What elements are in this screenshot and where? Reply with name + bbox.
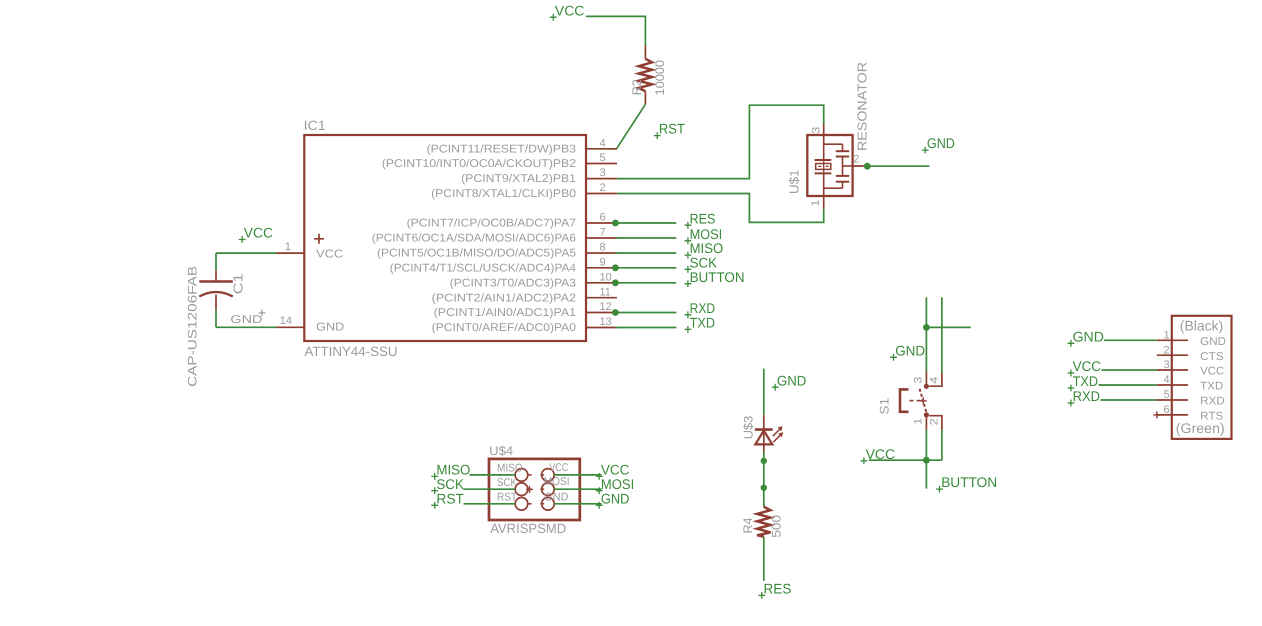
ftdi pin 2 CTS <box>1157 344 1224 362</box>
svg-text:ATTINY44-SSU: ATTINY44-SSU <box>305 344 398 359</box>
svg-text:(PCINT8/XTAL1/CLKI)PB0: (PCINT8/XTAL1/CLKI)PB0 <box>431 188 576 200</box>
ftdi pin 6 RTS <box>1157 404 1224 422</box>
svg-text:SCK: SCK <box>436 476 464 492</box>
junction at VCC of switch <box>923 457 930 464</box>
svg-text:1: 1 <box>810 200 822 207</box>
junction dot 2 on LED wire <box>761 485 767 491</box>
svg-text:(PCINT3/T0/ADC3)PA3: (PCINT3/T0/ADC3)PA3 <box>450 277 576 289</box>
switch S1 <box>900 372 942 430</box>
svg-text:5: 5 <box>1163 389 1169 401</box>
svg-text:RST: RST <box>497 492 517 504</box>
resonator pin 3 stub <box>811 124 824 136</box>
svg-text:MOSI: MOSI <box>601 476 634 492</box>
wire pin 12 to label <box>615 312 676 314</box>
pin 14 stub <box>275 315 304 327</box>
ftdi pin 3 VCC <box>1157 359 1224 377</box>
svg-text:10000: 10000 <box>653 60 667 96</box>
svg-text:GND: GND <box>1073 328 1104 344</box>
net label VCC (switch) <box>861 446 896 464</box>
resonator pin 2 stub <box>853 154 869 166</box>
junction on pin 10 wire <box>612 279 619 286</box>
svg-text:GND: GND <box>601 490 630 506</box>
wire switch pin 2 down <box>941 430 943 461</box>
svg-text:4: 4 <box>928 377 940 384</box>
net label BUTTON <box>936 474 997 492</box>
isp pad left MISO <box>515 469 531 482</box>
svg-text:RES: RES <box>690 210 716 226</box>
svg-text:BUTTON: BUTTON <box>690 269 745 285</box>
svg-text:AVRISPSMD: AVRISPSMD <box>490 521 566 536</box>
svg-text:U$3: U$3 <box>741 416 755 440</box>
svg-text:GND: GND <box>777 372 807 388</box>
wire pin 9 to label <box>615 267 676 269</box>
ic pin 6 PA7 <box>407 212 617 230</box>
svg-text:2: 2 <box>929 418 941 425</box>
svg-text:3: 3 <box>1163 359 1169 371</box>
svg-text:11: 11 <box>600 286 611 298</box>
net label VCC (isp right) <box>596 462 630 480</box>
svg-text:VCC: VCC <box>1073 358 1101 374</box>
svg-text:(PCINT5/OC1B/MISO/DO/ADC5)PA5: (PCINT5/OC1B/MISO/DO/ADC5)PA5 <box>377 248 576 260</box>
net label MOSI <box>685 226 723 244</box>
svg-text:9: 9 <box>600 256 606 268</box>
svg-text:(PCINT1/AIN0/ADC1)PA1: (PCINT1/AIN0/ADC1)PA1 <box>434 307 576 319</box>
wire isp MISO left <box>470 474 516 476</box>
net label GND (resonator) <box>922 135 955 153</box>
svg-text:3: 3 <box>913 377 925 384</box>
svg-text:1: 1 <box>913 418 925 425</box>
isp pad right VCC <box>540 469 554 482</box>
wire to BUTTON label <box>925 460 927 488</box>
svg-text:13: 13 <box>600 316 612 328</box>
svg-text:U$1: U$1 <box>786 170 801 195</box>
isp pad right MOSI <box>540 483 554 496</box>
junction dot 1 on LED wire <box>761 458 767 464</box>
svg-text:5: 5 <box>600 152 606 164</box>
junction at resonator pin 2 <box>864 163 871 170</box>
net label TXD (ftdi) <box>1068 373 1099 391</box>
wire IC pin 3 PB1 to resonator pin 3 <box>617 105 824 178</box>
svg-text:GND: GND <box>316 322 344 334</box>
wire pin 7 to label <box>615 237 676 239</box>
isp origin cross <box>526 486 533 493</box>
svg-text:TXD: TXD <box>1200 381 1223 393</box>
ftdi pin 1 GND <box>1157 330 1226 348</box>
svg-text:GND: GND <box>544 491 568 503</box>
isp pad left SCK <box>515 483 531 496</box>
svg-text:VCC: VCC <box>316 248 343 260</box>
wire ftdi VCC <box>1102 369 1157 371</box>
svg-text:3: 3 <box>811 127 823 134</box>
net label MOSI (isp right) <box>596 476 634 494</box>
svg-text:U$4: U$4 <box>489 444 513 458</box>
resonator pin 1 stub <box>810 196 824 209</box>
wire R4 to RES <box>763 537 765 581</box>
ic pin 5 PB2 <box>382 152 617 170</box>
svg-text:500: 500 <box>769 515 783 538</box>
ic pin 3 PB1 <box>461 167 617 185</box>
svg-text:(PCINT6/OC1A/SDA/MOSI/ADC6)PA6: (PCINT6/OC1A/SDA/MOSI/ADC6)PA6 <box>372 233 576 245</box>
svg-text:RESONATOR: RESONATOR <box>855 62 870 151</box>
wire ftdi TXD <box>1099 384 1157 386</box>
svg-text:VCC: VCC <box>866 446 896 462</box>
wire switch pin 4 up <box>941 297 943 373</box>
ic pin 7 PA6 <box>372 227 617 245</box>
svg-text:(PCINT10/INT0/OC0A/CKOUT)PB2: (PCINT10/INT0/OC0A/CKOUT)PB2 <box>382 158 576 170</box>
svg-text:4: 4 <box>1163 374 1169 386</box>
svg-text:CAP-US1206FAB: CAP-US1206FAB <box>186 266 200 387</box>
resistor R2 <box>639 46 652 104</box>
ic pin 10 PA3 <box>450 271 617 289</box>
isp pad right GND <box>540 498 554 511</box>
svg-text:TXD: TXD <box>690 315 716 331</box>
svg-text:VCC: VCC <box>1200 366 1224 378</box>
svg-text:RST: RST <box>659 121 685 137</box>
net label GND (switch) <box>890 342 925 360</box>
svg-text:(PCINT9/XTAL2)PB1: (PCINT9/XTAL2)PB1 <box>461 173 576 185</box>
net label GND (isp right) <box>596 490 630 508</box>
ic pin 13 PA0 <box>432 316 617 334</box>
svg-text:6: 6 <box>600 212 606 224</box>
svg-text:1: 1 <box>1163 330 1169 342</box>
wire LED anode to R4 <box>763 452 765 507</box>
wire IC pin 2 PB0 to resonator pin 1 <box>617 194 824 223</box>
net label RES <box>685 210 716 228</box>
svg-text:(Black): (Black) <box>1180 318 1224 334</box>
net label VCC (ftdi) <box>1068 358 1102 376</box>
ic U1 ATTINY44-SSU body <box>304 135 586 341</box>
ftdi pin 5 RXD <box>1157 389 1225 407</box>
svg-text:14: 14 <box>280 315 292 327</box>
isp pad left RST <box>515 498 531 511</box>
wire isp GND right <box>554 503 601 505</box>
ftdi header body <box>1172 316 1232 439</box>
svg-text:RTS: RTS <box>1200 411 1223 423</box>
svg-text:R4: R4 <box>741 517 755 533</box>
net label SCK <box>685 255 718 273</box>
svg-text:BUTTON: BUTTON <box>941 474 997 490</box>
wire R2 to RST pin 4 (diagonal) <box>608 104 645 149</box>
svg-text:RXD: RXD <box>1073 388 1100 404</box>
wire pin 6 to label <box>615 222 676 224</box>
net label TXD <box>685 315 716 333</box>
wire GND stub right <box>926 326 970 328</box>
net label MISO (isp left) <box>431 462 470 480</box>
svg-text:S1: S1 <box>878 398 892 415</box>
wire pin 13 to label <box>615 327 676 329</box>
net label BUTTON <box>685 269 745 287</box>
svg-text:RES: RES <box>764 581 792 597</box>
power label VCC (top, net to R2) <box>550 2 585 20</box>
wire GND to LED cathode <box>763 369 765 416</box>
net label RES (bottom) <box>758 581 791 599</box>
svg-text:12: 12 <box>600 301 612 313</box>
net label GND (LED) <box>772 372 807 390</box>
wire pin 10 to label <box>615 282 676 284</box>
wire isp MOSI right <box>554 488 601 490</box>
wire resonator pin 2 to GND <box>867 165 929 167</box>
svg-text:C1: C1 <box>231 273 246 294</box>
wire VCC to R2 top <box>586 16 645 46</box>
wire ftdi GND <box>1104 339 1157 341</box>
ic plus mark at VCC <box>314 234 324 244</box>
junction at GND of switch <box>923 324 930 331</box>
svg-text:SCK: SCK <box>497 477 517 489</box>
isp header U$4 body <box>489 459 580 520</box>
svg-text:RXD: RXD <box>1200 396 1225 408</box>
svg-text:VCC: VCC <box>549 462 568 474</box>
svg-text:1: 1 <box>285 241 291 253</box>
svg-text:4: 4 <box>600 137 606 149</box>
wire C1 to GND / IC pin 14 <box>216 309 276 327</box>
wire ftdi RXD <box>1101 399 1157 401</box>
ftdi pin 6 cross mark <box>1153 411 1160 418</box>
ftdi pin 4 TXD <box>1157 374 1223 392</box>
junction on pin 9 wire <box>612 264 619 271</box>
ic pin 2 PB0 <box>431 182 617 200</box>
svg-text:GND: GND <box>927 135 955 151</box>
junction on pin 6 wire <box>612 220 619 227</box>
svg-text:VCC: VCC <box>244 225 273 241</box>
svg-text:2: 2 <box>600 182 606 194</box>
ic pin 4 PB3 <box>427 137 618 155</box>
net label SCK (isp left) <box>431 476 464 494</box>
svg-text:10: 10 <box>600 271 612 283</box>
resonator U$1 body <box>807 135 852 196</box>
svg-text:MISO: MISO <box>497 463 523 475</box>
svg-text:(PCINT11/RESET/DW)PB3: (PCINT11/RESET/DW)PB3 <box>427 143 577 155</box>
wire VCC horizontal <box>869 459 942 461</box>
net label MISO <box>685 240 724 258</box>
ic pin 11 PA2 <box>432 286 617 304</box>
svg-text:(PCINT7/ICP/OC0B/ADC7)PA7: (PCINT7/ICP/OC0B/ADC7)PA7 <box>407 218 576 230</box>
led U$3 <box>755 415 783 451</box>
svg-text:(PCINT4/T1/SCL/USCK/ADC4)PA4: (PCINT4/T1/SCL/USCK/ADC4)PA4 <box>390 262 576 274</box>
wire isp RST left <box>464 503 516 505</box>
svg-text:TXD: TXD <box>1073 373 1098 389</box>
svg-text:GND: GND <box>230 314 262 326</box>
svg-text:2: 2 <box>853 154 859 166</box>
wire isp VCC right <box>554 474 601 476</box>
gray GND text at C1 <box>230 310 265 326</box>
svg-text:CTS: CTS <box>1200 351 1224 363</box>
net label GND (ftdi) <box>1068 328 1104 346</box>
wire isp SCK left <box>464 488 516 490</box>
ic pin 9 PA4 <box>390 256 617 274</box>
svg-text:(PCINT2/AIN1/ADC2)PA2: (PCINT2/AIN1/ADC2)PA2 <box>432 292 576 304</box>
net label RST (isp left) <box>431 490 464 508</box>
wire pin 8 to label <box>615 252 676 254</box>
svg-text:8: 8 <box>600 242 606 254</box>
wire VCC to IC pin 1 and C1 <box>216 253 276 270</box>
svg-text:RST: RST <box>436 490 464 506</box>
svg-text:RXD: RXD <box>690 300 716 316</box>
wire switch pin 3 up (GND net) <box>925 297 927 371</box>
net label RXD (ftdi) <box>1068 388 1101 406</box>
net label RST <box>654 121 686 139</box>
svg-text:MOSI: MOSI <box>544 476 570 488</box>
ic pin 8 PA5 <box>377 242 617 260</box>
svg-text:GND: GND <box>1200 336 1226 348</box>
svg-text:3: 3 <box>600 167 606 179</box>
capacitor C1 (polarized) <box>199 271 233 310</box>
svg-text:(PCINT0/AREF/ADC0)PA0: (PCINT0/AREF/ADC0)PA0 <box>432 322 576 334</box>
svg-text:IC1: IC1 <box>304 118 326 133</box>
net label VCC (at C1) <box>239 225 273 243</box>
ic pin 12 PA1 <box>434 301 617 319</box>
svg-text:GND: GND <box>895 342 925 358</box>
svg-text:2: 2 <box>1163 344 1169 356</box>
resistor R4 <box>757 507 770 537</box>
net label RXD <box>685 300 716 318</box>
svg-text:7: 7 <box>600 227 606 239</box>
svg-text:6: 6 <box>1163 404 1169 416</box>
svg-text:R2: R2 <box>630 79 644 95</box>
svg-text:VCC: VCC <box>555 2 585 18</box>
junction on pin 12 wire <box>612 309 619 316</box>
wire switch pin 1 down to VCC <box>925 430 927 461</box>
pin 1 stub <box>275 241 304 253</box>
